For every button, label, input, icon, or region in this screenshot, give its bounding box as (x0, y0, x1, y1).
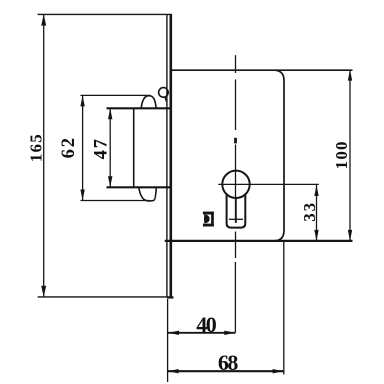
svg-text:47: 47 (92, 137, 112, 159)
svg-text:68: 68 (218, 350, 239, 375)
svg-text:33: 33 (300, 201, 319, 222)
svg-text:62: 62 (59, 136, 79, 158)
svg-text:40: 40 (196, 312, 217, 337)
svg-text:100: 100 (332, 140, 351, 169)
svg-text:165: 165 (27, 133, 46, 162)
